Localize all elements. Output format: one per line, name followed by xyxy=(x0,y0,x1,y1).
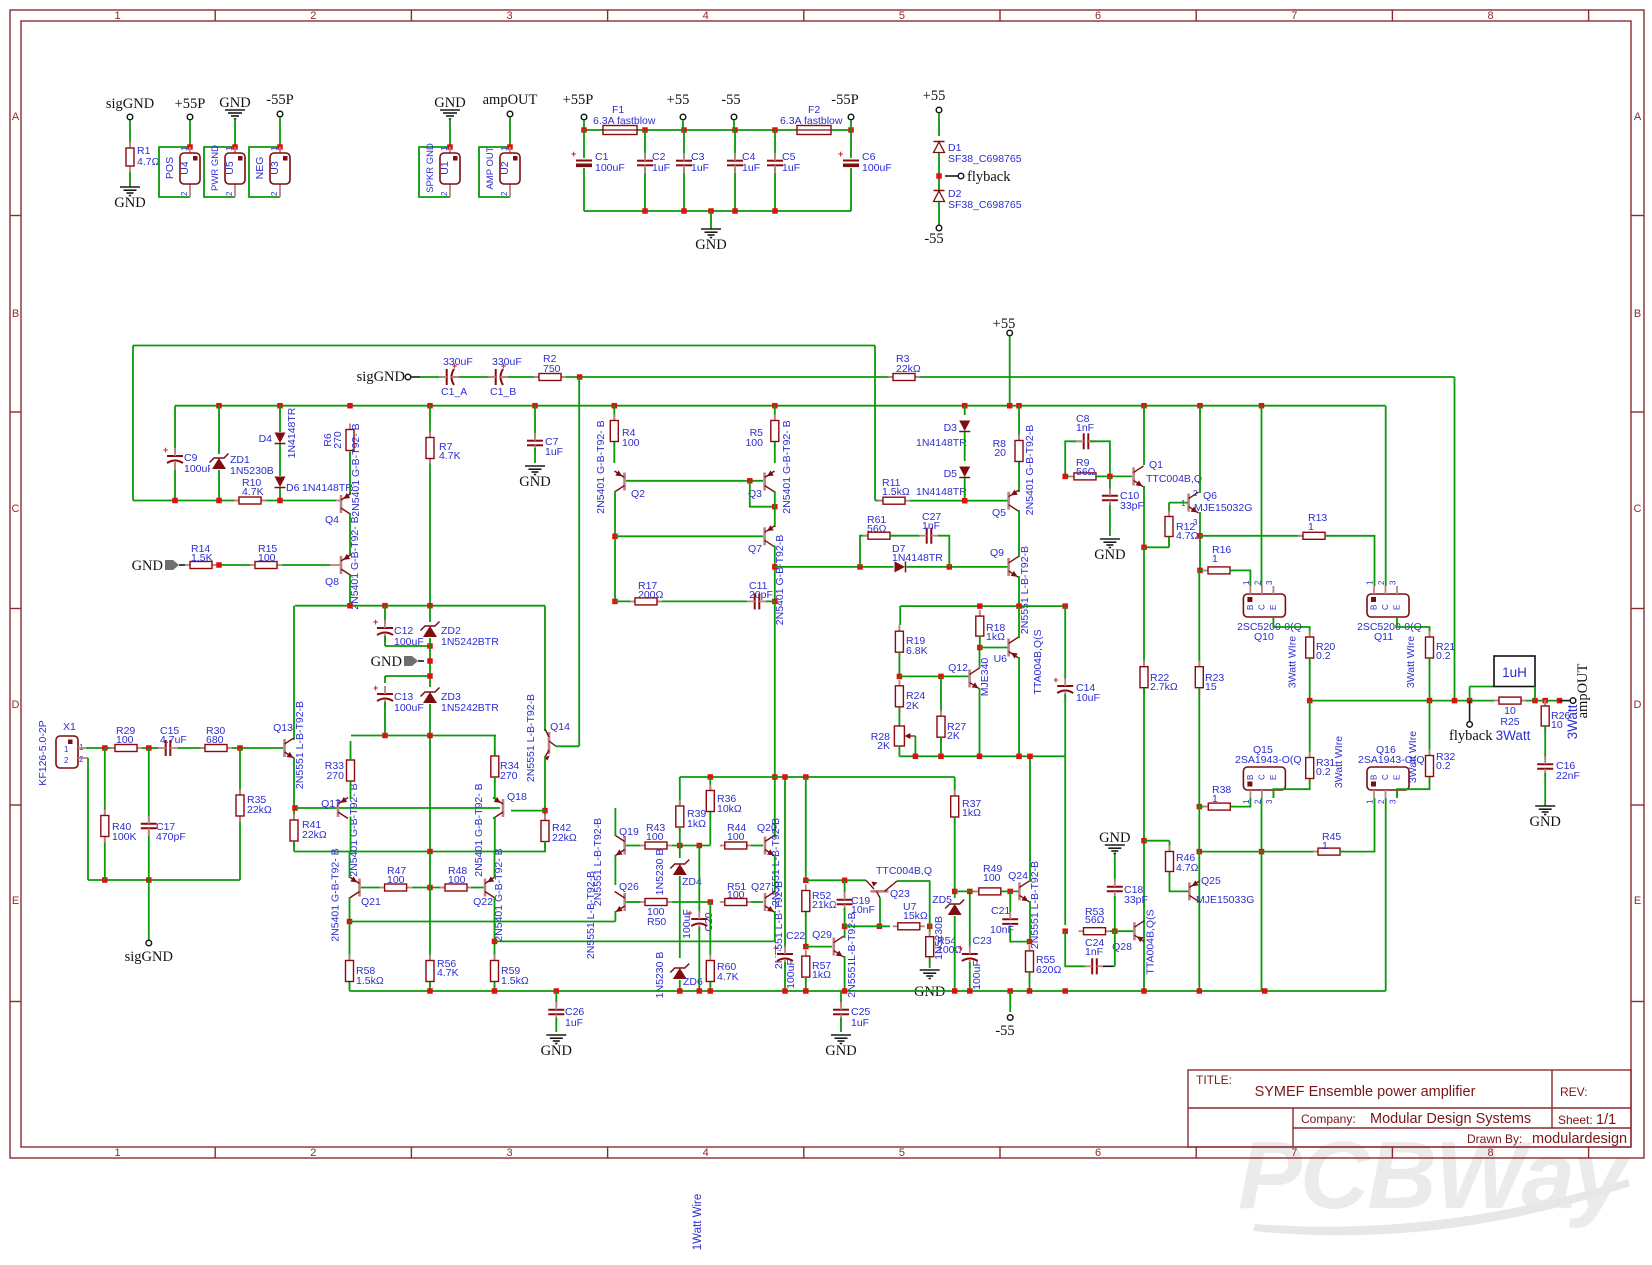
svg-text:C21: C21 xyxy=(991,905,1010,917)
transistor Q13 xyxy=(285,738,295,759)
wire xyxy=(350,817,352,852)
wire xyxy=(774,491,776,527)
svg-text:Q4: Q4 xyxy=(325,514,339,526)
ground xyxy=(440,110,460,119)
junction xyxy=(842,924,848,930)
wire xyxy=(840,1018,842,1032)
wire xyxy=(806,946,832,948)
wire xyxy=(806,879,866,881)
svg-text:100uF: 100uF xyxy=(595,162,625,174)
wire xyxy=(979,688,981,756)
svg-text:1uF: 1uF xyxy=(691,162,709,174)
wire xyxy=(1018,406,1020,440)
wire xyxy=(1429,658,1431,701)
svg-text:Q26: Q26 xyxy=(619,881,639,893)
wire xyxy=(349,897,351,960)
svg-text:100: 100 xyxy=(646,831,664,843)
junction xyxy=(427,643,433,649)
svg-text:GND: GND xyxy=(825,1043,856,1059)
svg-text:U1: U1 xyxy=(439,161,451,175)
junction xyxy=(1262,988,1268,994)
wire xyxy=(969,962,971,991)
wire xyxy=(217,564,251,566)
svg-text:4.7Ω: 4.7Ω xyxy=(1176,530,1199,542)
wire xyxy=(1065,931,1086,966)
resistor R46 xyxy=(1166,846,1174,878)
wire xyxy=(104,748,106,880)
svg-text:C: C xyxy=(1381,774,1390,780)
power transistor Q10 xyxy=(1242,580,1286,617)
resistor R38 xyxy=(1203,803,1235,810)
wire xyxy=(1168,537,1170,548)
wire xyxy=(1200,569,1208,571)
wire xyxy=(615,600,747,602)
resistor R21 xyxy=(1426,631,1434,664)
wire xyxy=(774,855,776,892)
svg-text:SPKR GND: SPKR GND xyxy=(425,143,436,193)
svg-text:E: E xyxy=(1269,775,1278,780)
junction xyxy=(772,774,778,780)
svg-text:+: + xyxy=(1053,675,1058,685)
svg-text:GND: GND xyxy=(1094,547,1125,563)
wire xyxy=(874,346,876,501)
wire xyxy=(429,406,431,606)
junction xyxy=(427,733,433,739)
wire xyxy=(384,636,386,646)
junction xyxy=(1016,603,1022,609)
wire xyxy=(964,432,966,461)
junction xyxy=(697,988,703,994)
wire xyxy=(1103,965,1113,967)
wire xyxy=(626,845,641,847)
svg-text:330uF: 330uF xyxy=(492,356,522,368)
capacitor C9 xyxy=(163,445,184,470)
svg-text:E: E xyxy=(12,895,19,907)
junction xyxy=(952,988,958,994)
svg-text:2: 2 xyxy=(225,191,234,196)
svg-text:22nF: 22nF xyxy=(1556,770,1580,782)
svg-text:100uF: 100uF xyxy=(785,959,797,989)
wire xyxy=(1544,773,1546,806)
svg-text:1kΩ: 1kΩ xyxy=(687,818,706,830)
svg-text:R50: R50 xyxy=(647,916,666,928)
connector X1 xyxy=(56,736,88,768)
wire xyxy=(1273,779,1309,798)
wire xyxy=(1009,336,1011,406)
svg-text:7: 7 xyxy=(1291,10,1297,22)
svg-text:100uF: 100uF xyxy=(681,909,693,939)
junction xyxy=(803,878,809,884)
wire xyxy=(890,535,920,537)
capacitor C4 xyxy=(726,153,744,173)
svg-text:sigGND: sigGND xyxy=(125,949,173,965)
resistor R18 xyxy=(976,610,984,642)
wire xyxy=(614,911,616,922)
wire xyxy=(534,448,536,463)
svg-text:MJE340: MJE340 xyxy=(979,658,991,697)
svg-text:+55P: +55P xyxy=(175,96,206,112)
wire xyxy=(898,652,900,676)
wire xyxy=(1143,688,1145,991)
wire xyxy=(1309,658,1311,701)
svg-text:4: 4 xyxy=(703,10,709,22)
svg-text:2: 2 xyxy=(310,10,316,22)
wire rail xyxy=(584,210,851,212)
wire xyxy=(850,120,852,130)
wire xyxy=(159,147,190,197)
svg-text:+: + xyxy=(163,445,168,455)
junction xyxy=(172,498,178,504)
junction xyxy=(1197,403,1203,409)
wire xyxy=(349,852,351,879)
junction xyxy=(216,403,222,409)
svg-text:U5: U5 xyxy=(224,161,236,175)
svg-text:Q25: Q25 xyxy=(1201,875,1221,887)
svg-text:Q17: Q17 xyxy=(321,798,341,810)
ground xyxy=(541,1035,572,1059)
svg-text:Q7: Q7 xyxy=(748,543,762,555)
wire xyxy=(204,147,235,197)
svg-text:Q20: Q20 xyxy=(757,822,777,834)
svg-text:2N5401 G-B-T92-B: 2N5401 G-B-T92-B xyxy=(1024,425,1036,515)
resistor R14 xyxy=(185,562,217,569)
svg-text:56Ω: 56Ω xyxy=(1085,914,1105,926)
svg-text:33pF: 33pF xyxy=(1124,894,1148,906)
wire xyxy=(1143,406,1145,465)
svg-text:1: 1 xyxy=(440,146,449,151)
svg-text:1N5230B: 1N5230B xyxy=(230,465,274,477)
transistor Q25 xyxy=(1189,880,1199,902)
terminal -55 xyxy=(936,225,942,231)
resistor R23 xyxy=(1195,661,1203,694)
svg-text:1uF: 1uF xyxy=(565,1017,583,1029)
wire xyxy=(1534,687,1536,701)
wire xyxy=(1429,701,1431,755)
junction xyxy=(237,745,243,751)
junction xyxy=(427,988,433,994)
wire xyxy=(626,480,763,482)
resistor R41 xyxy=(290,814,298,847)
svg-text:4.7uF: 4.7uF xyxy=(160,734,187,746)
svg-text:330uF: 330uF xyxy=(443,356,473,368)
svg-text:0.2: 0.2 xyxy=(1436,650,1451,662)
wire xyxy=(774,911,776,941)
jumper U1 xyxy=(425,143,460,197)
jumper U3 xyxy=(254,146,290,197)
wire xyxy=(412,887,445,889)
svg-text:3: 3 xyxy=(1265,580,1274,585)
wire xyxy=(644,130,646,211)
svg-text:C: C xyxy=(1257,774,1266,780)
junction xyxy=(708,899,714,905)
svg-text:D: D xyxy=(1634,699,1642,711)
resistor R20 xyxy=(1306,631,1314,664)
junction xyxy=(581,127,587,133)
transistor Q9 xyxy=(1009,556,1019,577)
junction xyxy=(1307,698,1313,704)
ground xyxy=(1105,845,1125,854)
wire rail xyxy=(584,129,851,131)
junction xyxy=(1197,568,1203,574)
svg-text:B: B xyxy=(1246,605,1255,610)
svg-text:+: + xyxy=(773,943,778,953)
svg-text:Q27: Q27 xyxy=(751,881,771,893)
svg-text:56Ω: 56Ω xyxy=(867,523,887,535)
wire xyxy=(850,130,852,211)
junction xyxy=(772,599,778,605)
capacitor C8 xyxy=(1076,432,1096,450)
svg-text:10: 10 xyxy=(1551,719,1563,731)
svg-text:1uF: 1uF xyxy=(782,162,800,174)
svg-text:1N4148TR: 1N4148TR xyxy=(302,482,353,494)
junction xyxy=(612,534,618,540)
svg-text:D3: D3 xyxy=(944,422,958,434)
svg-text:+55P: +55P xyxy=(563,92,594,108)
svg-text:C23: C23 xyxy=(973,935,992,947)
svg-text:B: B xyxy=(1246,775,1255,780)
wire xyxy=(471,887,484,889)
resistor R7 xyxy=(426,432,434,465)
resistor R61 xyxy=(863,532,895,539)
junction xyxy=(187,144,193,150)
svg-text:10nF: 10nF xyxy=(851,904,875,916)
wire xyxy=(938,202,940,225)
zener ZD3 xyxy=(421,687,440,704)
svg-text:2K: 2K xyxy=(947,730,960,742)
svg-text:Q19: Q19 xyxy=(619,826,639,838)
transistor Q24 xyxy=(1019,881,1029,902)
capacitor C18 xyxy=(1106,879,1124,899)
svg-text:4.7K: 4.7K xyxy=(439,450,461,462)
wire xyxy=(384,606,386,624)
ground xyxy=(225,110,245,119)
svg-text:4.7K: 4.7K xyxy=(242,486,264,498)
svg-text:2N5551 L-B-T92-B: 2N5551 L-B-T92-B xyxy=(294,701,306,789)
wire xyxy=(698,846,700,914)
junction xyxy=(1016,754,1022,760)
resistor R44 xyxy=(720,842,752,849)
wire xyxy=(189,120,191,147)
svg-text:TTC004B,Q: TTC004B,Q xyxy=(876,865,932,877)
capacitor C19 xyxy=(836,892,854,912)
svg-text:1: 1 xyxy=(180,146,189,151)
svg-text:1: 1 xyxy=(115,10,121,22)
power transistor Q16 xyxy=(1366,767,1410,804)
wire xyxy=(1009,891,1011,913)
junction xyxy=(938,754,944,760)
resistor R32 xyxy=(1426,750,1434,783)
svg-text:GND: GND xyxy=(519,474,550,490)
transistor Q1 xyxy=(1134,466,1144,487)
jumper U2 xyxy=(485,146,520,197)
svg-text:D: D xyxy=(12,699,20,711)
svg-text:GND: GND xyxy=(434,95,465,111)
wire xyxy=(133,500,336,502)
svg-text:3: 3 xyxy=(506,10,512,22)
junction xyxy=(1027,988,1033,994)
capacitor C23 xyxy=(958,943,979,968)
wire xyxy=(805,977,807,991)
svg-text:8: 8 xyxy=(1487,1147,1493,1159)
diode D5 xyxy=(959,466,971,478)
svg-text:1: 1 xyxy=(500,146,509,151)
junction xyxy=(1107,474,1113,480)
resistor R3 xyxy=(888,374,920,381)
wire rail -55 xyxy=(350,990,1386,992)
wire xyxy=(679,777,681,806)
wire xyxy=(844,880,846,896)
power transistor Q15 xyxy=(1242,767,1286,804)
svg-text:1N5230 B: 1N5230 B xyxy=(654,849,666,896)
wire xyxy=(429,704,431,852)
svg-text:100uF: 100uF xyxy=(184,463,214,475)
svg-text:22kΩ: 22kΩ xyxy=(247,804,272,816)
junction xyxy=(277,403,283,409)
junction xyxy=(1532,698,1538,704)
svg-text:Sheet:: Sheet: xyxy=(1558,1113,1593,1127)
wire xyxy=(349,514,351,556)
junction xyxy=(842,988,848,994)
diode D7 xyxy=(894,561,907,573)
zener ZD2 xyxy=(421,621,440,638)
svg-text:-55P: -55P xyxy=(831,92,858,108)
resistor R40 xyxy=(101,810,109,843)
jumper U5 xyxy=(210,145,245,197)
wire xyxy=(698,927,700,991)
svg-text:MJE15033G: MJE15033G xyxy=(1196,894,1254,906)
wire xyxy=(751,901,763,903)
wire xyxy=(954,817,956,889)
wire xyxy=(495,940,775,942)
svg-text:2: 2 xyxy=(1377,799,1386,804)
wire feedback drop xyxy=(1454,377,1456,701)
svg-text:2: 2 xyxy=(1193,489,1198,498)
resistor R11 xyxy=(878,497,910,504)
svg-text:6: 6 xyxy=(1095,10,1101,22)
svg-text:GND: GND xyxy=(541,1043,572,1059)
wire xyxy=(1064,694,1066,756)
junction xyxy=(1141,838,1147,844)
junction xyxy=(427,673,433,679)
resistor R49 xyxy=(974,888,1006,895)
svg-text:1: 1 xyxy=(64,745,69,754)
junction xyxy=(877,924,883,930)
svg-text:GND: GND xyxy=(695,237,726,253)
wire xyxy=(494,736,496,757)
capacitor C3 xyxy=(675,153,693,173)
wire xyxy=(614,855,616,885)
resistor R9 xyxy=(1069,473,1101,480)
capacitor C6 xyxy=(838,149,860,168)
junction xyxy=(677,843,683,849)
svg-text:1kΩ: 1kΩ xyxy=(812,969,831,981)
wire xyxy=(844,926,846,938)
svg-text:33pF: 33pF xyxy=(1120,500,1144,512)
resistor R57 xyxy=(802,950,810,983)
wire xyxy=(1261,798,1263,991)
svg-text:2: 2 xyxy=(500,191,509,196)
wire xyxy=(178,747,205,749)
svg-text:1N4148TR: 1N4148TR xyxy=(916,486,967,498)
wire xyxy=(774,442,776,463)
svg-text:C: C xyxy=(1257,604,1266,610)
junction xyxy=(1557,698,1563,704)
junction xyxy=(612,599,618,605)
resistor R16 xyxy=(1203,567,1235,574)
wire xyxy=(1340,798,1375,852)
wire xyxy=(1113,965,1115,967)
wire xyxy=(899,755,1065,757)
wire xyxy=(784,962,786,991)
junction xyxy=(708,774,714,780)
junction xyxy=(947,564,953,570)
svg-text:4: 4 xyxy=(703,1147,709,1159)
svg-text:2: 2 xyxy=(79,755,84,764)
resistor R48 xyxy=(440,884,472,891)
terminal flyback xyxy=(958,173,964,179)
wire xyxy=(1199,406,1201,493)
wire xyxy=(129,172,131,187)
wire xyxy=(613,406,615,421)
wire xyxy=(899,606,901,625)
junction xyxy=(842,878,848,884)
junction xyxy=(803,774,809,780)
wire xyxy=(709,902,711,955)
junction xyxy=(277,498,283,504)
svg-text:C: C xyxy=(12,503,20,515)
svg-text:100: 100 xyxy=(622,437,640,449)
svg-text:2N5551 L-B-T92-B: 2N5551 L-B-T92-B xyxy=(585,871,597,959)
svg-text:15: 15 xyxy=(1205,681,1217,693)
wire xyxy=(1261,406,1263,586)
wire rail +55 xyxy=(175,405,1386,407)
junction xyxy=(977,754,983,760)
svg-text:100: 100 xyxy=(727,889,745,901)
wire xyxy=(494,852,496,879)
wire xyxy=(954,916,956,991)
svg-text:Q11: Q11 xyxy=(1374,631,1393,643)
resistor R30 xyxy=(200,745,232,752)
svg-text:10kΩ: 10kΩ xyxy=(717,803,742,815)
wire xyxy=(683,130,685,211)
svg-text:1.5kΩ: 1.5kΩ xyxy=(882,486,910,498)
resistor R29 xyxy=(110,745,142,752)
svg-text:GND: GND xyxy=(914,984,945,1000)
resistor R4 xyxy=(610,415,618,448)
wire xyxy=(929,926,931,936)
svg-text:Q10: Q10 xyxy=(1254,631,1274,643)
capacitor C21 xyxy=(1001,912,1019,932)
junction xyxy=(612,403,618,409)
svg-text:470pF: 470pF xyxy=(156,831,186,843)
ground xyxy=(132,558,185,574)
junction xyxy=(772,208,778,214)
svg-text:TITLE:: TITLE: xyxy=(1196,1073,1232,1087)
svg-text:4.7K: 4.7K xyxy=(437,967,459,979)
wire xyxy=(680,776,955,778)
svg-text:2N5551 L-B-T92-B: 2N5551 L-B-T92-B xyxy=(525,694,537,782)
wire xyxy=(774,546,776,602)
svg-text:270: 270 xyxy=(332,431,344,449)
wire rail output xyxy=(1310,700,1560,702)
svg-text:+: + xyxy=(958,943,963,953)
ground xyxy=(695,229,726,253)
resistor R17 xyxy=(630,598,662,605)
resistor R50 xyxy=(640,899,672,906)
ground xyxy=(825,1035,856,1059)
wire xyxy=(583,130,585,211)
svg-text:2: 2 xyxy=(180,191,189,196)
